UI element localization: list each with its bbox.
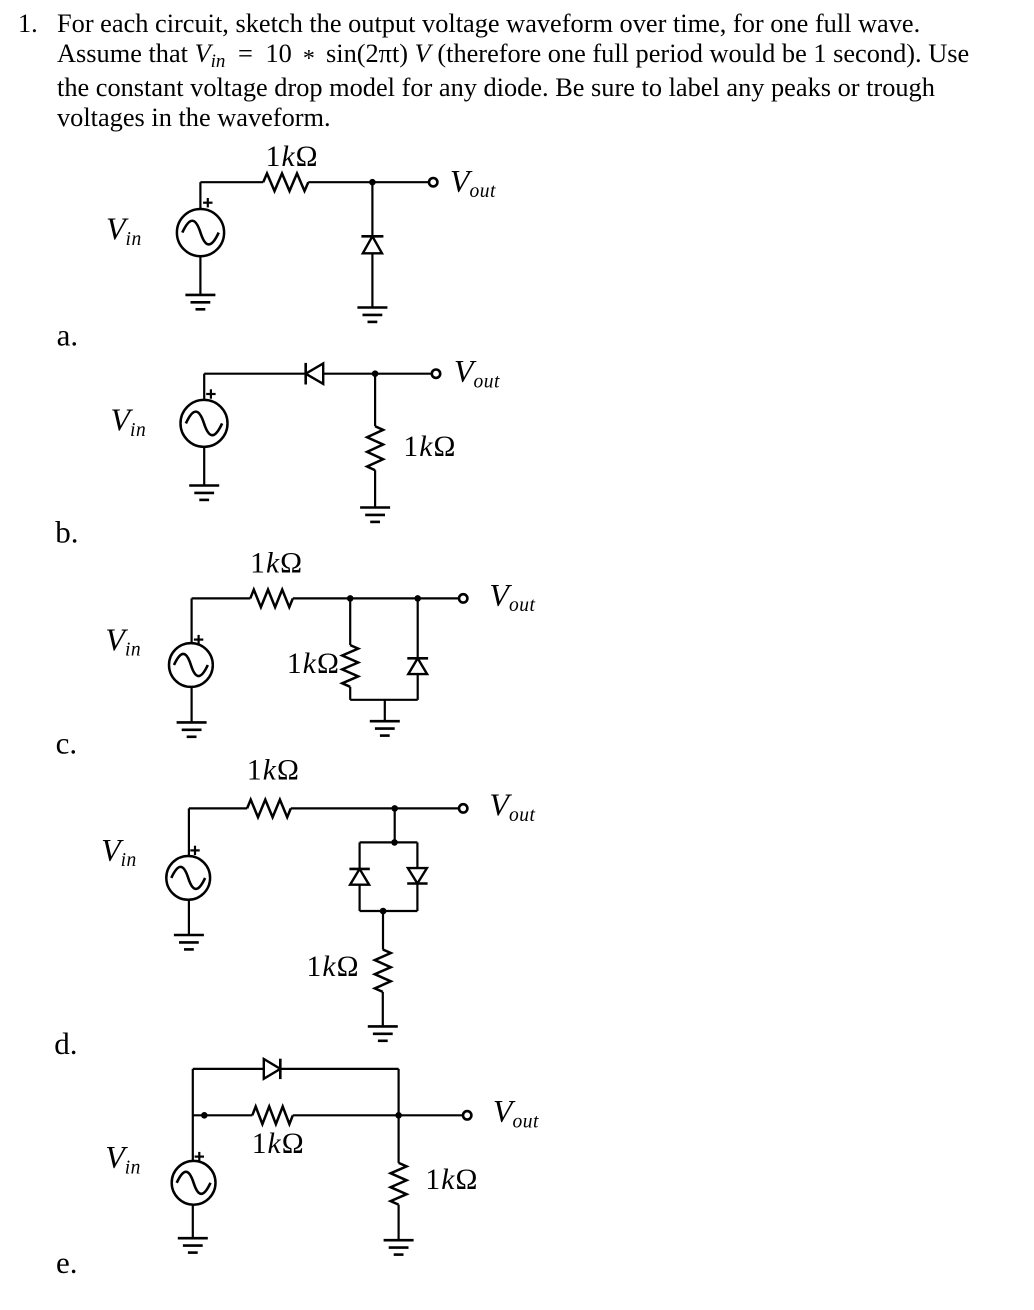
svg-text:b.: b. (55, 514, 78, 549)
svg-text:1kΩ: 1kΩ (403, 431, 456, 463)
svg-text:Vout: Vout (454, 353, 500, 392)
svg-text:c.: c. (56, 726, 78, 761)
svg-text:Vin: Vin (106, 211, 142, 250)
svg-text:1kΩ: 1kΩ (247, 754, 300, 786)
svg-text:Vout: Vout (450, 163, 496, 202)
svg-text:e.: e. (56, 1245, 78, 1280)
svg-text:Vin: Vin (105, 622, 141, 661)
svg-text:Vout: Vout (489, 787, 535, 826)
svg-text:1kΩ: 1kΩ (250, 547, 303, 579)
svg-text:Vout: Vout (489, 577, 535, 616)
svg-text:1kΩ: 1kΩ (307, 951, 360, 983)
svg-text:Vout: Vout (493, 1093, 539, 1132)
svg-text:d.: d. (54, 1026, 77, 1061)
svg-text:1kΩ: 1kΩ (287, 648, 340, 680)
svg-text:Vin: Vin (101, 832, 137, 871)
svg-text:1kΩ: 1kΩ (252, 1128, 305, 1160)
svg-text:Vin: Vin (105, 1139, 141, 1178)
svg-text:a.: a. (57, 317, 79, 352)
svg-text:1kΩ: 1kΩ (266, 141, 319, 173)
svg-text:1kΩ: 1kΩ (425, 1164, 478, 1196)
svg-text:Vin: Vin (111, 402, 147, 441)
